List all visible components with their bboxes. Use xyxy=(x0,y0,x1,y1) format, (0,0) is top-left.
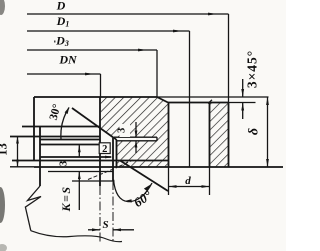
svg-text:3: 3 xyxy=(59,161,70,166)
svg-text:3×45°: 3×45° xyxy=(245,50,260,88)
svg-text:DN: DN xyxy=(58,53,78,67)
svg-text:K=S: K=S xyxy=(59,185,73,212)
svg-text:13: 13 xyxy=(0,143,10,156)
svg-text:2: 2 xyxy=(102,144,107,155)
svg-text:δ: δ xyxy=(247,128,262,135)
svg-text:S: S xyxy=(102,219,108,231)
svg-text:3: 3 xyxy=(117,128,128,133)
svg-text:D: D xyxy=(56,0,66,13)
svg-text:d: d xyxy=(185,175,191,187)
